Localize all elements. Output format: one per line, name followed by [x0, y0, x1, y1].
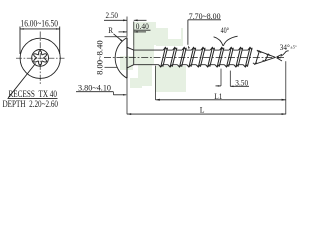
torx recess outer circle	[32, 50, 49, 67]
svg-text:16.00~16.50: 16.00~16.50	[21, 19, 59, 29]
leader 7.70~8.00	[187, 20, 189, 45]
L extension left	[126, 78, 128, 114]
svg-text:±5°: ±5°	[290, 44, 297, 49]
dim 3.50 right leg	[229, 71, 231, 87]
tip angle wing top	[277, 54, 283, 57]
shank bottom line	[134, 64, 159, 66]
leader 34 deg	[281, 51, 289, 57]
tip extension line	[285, 61, 287, 114]
screw axis centerline	[104, 57, 284, 59]
L1 extension left	[155, 66, 157, 100]
torx star	[34, 51, 47, 66]
dim line 2.50	[104, 19, 127, 21]
svg-text:DEPTH 2.20~2.60: DEPTH 2.20~2.60	[3, 100, 59, 110]
extension 8.00~8.40 top	[105, 36, 127, 38]
underline 7.70~8.00	[188, 19, 221, 21]
tip cone threads	[253, 51, 270, 64]
leader R	[114, 34, 123, 41]
dim 3.50 underline	[230, 85, 249, 87]
angle vee right arm	[223, 36, 237, 46]
label underline	[8, 97, 58, 99]
dim arrows 0.40	[119, 31, 127, 33]
dim line L	[127, 113, 286, 115]
fillet edge line	[133, 50, 135, 65]
head crown arc	[115, 38, 127, 79]
svg-text:2.50: 2.50	[106, 11, 119, 20]
svg-text:3.80~4.10: 3.80~4.10	[78, 84, 111, 93]
tip angle wing bottom	[277, 58, 283, 61]
svg-text:40°: 40°	[221, 26, 230, 35]
watermark tint blocks	[120, 22, 186, 92]
centerline horizontal	[16, 57, 65, 59]
angle vee left arm	[214, 37, 223, 46]
tip cone bottom line	[254, 57, 275, 64]
head outer circle	[20, 38, 60, 78]
svg-text:8.00~8.40: 8.00~8.40	[96, 40, 105, 75]
svg-text:L1: L1	[214, 92, 222, 101]
extension line right	[59, 27, 61, 55]
extension line left	[19, 27, 21, 55]
tip cone top line	[257, 50, 276, 57]
dim line 16.00~16.50	[20, 28, 60, 30]
centerline vertical	[39, 32, 41, 85]
svg-text:3.50: 3.50	[235, 78, 248, 87]
shank top line	[134, 49, 164, 51]
underline 0.40	[134, 29, 151, 31]
svg-text:0.40: 0.40	[136, 22, 149, 31]
svg-text:R: R	[108, 26, 113, 35]
extension 8.00~8.40 bottom	[105, 66, 118, 68]
dim 3.50 left leg	[220, 69, 222, 86]
thread zigzag	[159, 47, 253, 67]
leader 3.80~4.10	[112, 92, 114, 95]
svg-text:L: L	[200, 105, 205, 114]
fillet top	[127, 47, 134, 50]
underline 3.80~4.10	[76, 91, 113, 93]
dim arrow at shank start	[134, 19, 147, 21]
head face line	[126, 38, 128, 79]
extension line fillet end	[133, 22, 135, 50]
extension line head face	[126, 17, 128, 37]
dim line L1	[156, 99, 286, 101]
fillet bottom	[127, 65, 134, 68]
recess leader line	[8, 64, 35, 98]
